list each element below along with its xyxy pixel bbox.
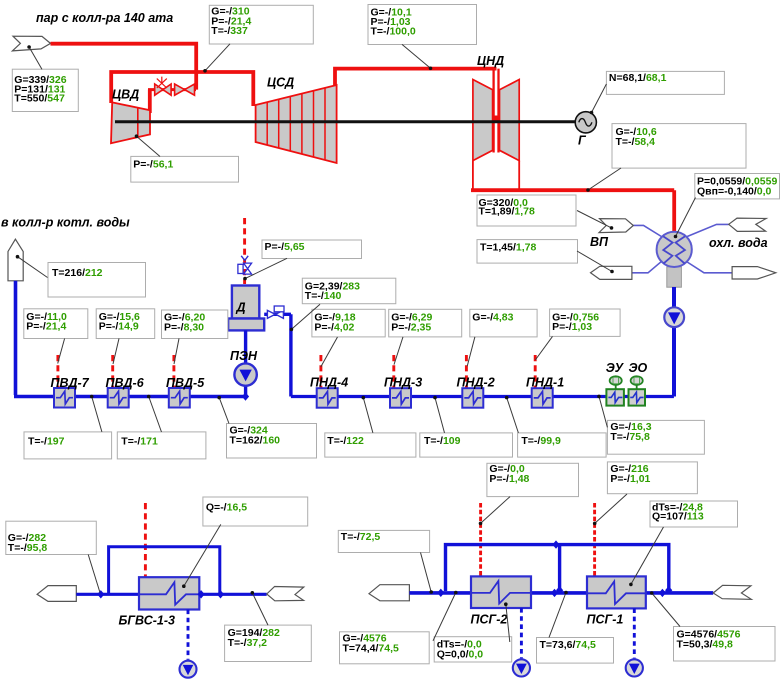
node: reference dot xyxy=(135,134,139,138)
leader line from (179,338.5) xyxy=(174,339,179,365)
pump PEN xyxy=(234,363,256,385)
svg-text:T=-/171: T=-/171 xyxy=(121,435,158,447)
flag: heated network water outlet xyxy=(713,585,751,599)
svg-text:G=-/4,83: G=-/4,83 xyxy=(472,312,513,324)
box: generator power xyxy=(606,71,724,94)
svg-text:Qвп=-0,140/0,0: Qвп=-0,140/0,0 xyxy=(697,186,772,198)
box: condenser pressure xyxy=(695,174,780,199)
leader line from (91.7,396.5) xyxy=(92,397,102,432)
heater БГВС-1-3 xyxy=(139,577,199,609)
svg-text:P=-/5,65: P=-/5,65 xyxy=(265,241,305,253)
leader line from (606.4,84) xyxy=(592,84,607,113)
leader line from (363.3,397.6) xyxy=(363,398,373,433)
box: PSG-2 water inlet xyxy=(340,632,430,664)
node: reference dot xyxy=(454,591,458,595)
node: reference dot xyxy=(433,396,437,400)
deaerator D xyxy=(228,286,264,331)
leader line from (42,69.4) xyxy=(29,47,42,69)
valve: deaerator steam admission valve xyxy=(238,256,252,274)
flag: cooling water outlet right xyxy=(732,267,776,279)
wire: exhaust steam line to condenser xyxy=(471,190,674,232)
svg-text:Q=107/113: Q=107/113 xyxy=(652,511,704,523)
leader line from (474.9,336.9) xyxy=(467,337,475,366)
node: reference dot xyxy=(564,591,568,595)
heater ПНД-2 xyxy=(462,388,483,408)
node: reference dot xyxy=(290,328,294,332)
flag: steam from collector 140 ata inlet xyxy=(12,36,50,51)
heater ПВД-5 xyxy=(169,388,190,408)
svg-text:N=68,1/68,1: N=68,1/68,1 xyxy=(609,72,667,84)
box: PVD-6 temp xyxy=(117,432,206,459)
box: PSG interstage temp xyxy=(537,638,614,664)
svg-text:ПНД-3: ПНД-3 xyxy=(384,375,422,389)
svg-text:ЭО: ЭО xyxy=(629,361,648,375)
shaft xyxy=(115,120,575,123)
turbine IP cylinder CSD xyxy=(256,85,337,163)
svg-text:T=-/72,5: T=-/72,5 xyxy=(341,531,381,543)
node: reference dot xyxy=(429,590,433,594)
box: VP params xyxy=(477,195,576,226)
wire: extraction steam dashed to PVD-5 xyxy=(172,355,175,389)
svg-text:P=-/1,48: P=-/1,48 xyxy=(489,473,529,485)
wire: feedwater line through PVD heaters xyxy=(14,281,246,397)
svg-text:T=-/197: T=-/197 xyxy=(28,435,65,447)
svg-text:T=-/99,9: T=-/99,9 xyxy=(521,435,561,447)
box: PSG-1 water outlet xyxy=(674,627,776,662)
flag: VP air inlet xyxy=(599,219,633,233)
box: fresh steam params xyxy=(12,69,78,111)
box: PSG-2 duty xyxy=(434,637,512,662)
svg-text:P=-/8,30: P=-/8,30 xyxy=(164,321,204,333)
box: PND-4 extraction xyxy=(312,309,385,337)
svg-text:P=-/21,4: P=-/21,4 xyxy=(26,321,66,333)
wire: IP exhaust to LP cylinder xyxy=(335,69,497,86)
wire: extraction steam dashed to PSG-1 xyxy=(593,503,596,577)
svg-text:P=-/4,02: P=-/4,02 xyxy=(314,321,354,333)
svg-text:пар с колл-ра 140 ата: пар с колл-ра 140 ата xyxy=(36,11,173,25)
node: reference dot xyxy=(590,111,594,115)
wire: deaerator outlet through PEN xyxy=(244,330,247,396)
svg-text:охл. вода: охл. вода xyxy=(709,236,768,250)
node: reference dot xyxy=(593,522,597,526)
leader line from (506.7,397.6) xyxy=(507,398,519,433)
wire: condensate line PND-1..PND-4 to deaerator riser xyxy=(291,395,674,398)
heater ПВД-7 xyxy=(54,388,75,408)
flag: return network water inlet xyxy=(369,585,409,601)
leader line from (136.5,136.2) xyxy=(137,136,161,156)
node: reference dot xyxy=(243,277,247,281)
node: reference dot xyxy=(90,395,94,399)
leader line from (599,396.4) xyxy=(599,396,607,427)
leader line from (420.5,552.5) xyxy=(421,553,432,593)
svg-text:Г: Г xyxy=(578,134,587,148)
heater ПВД-6 xyxy=(108,388,129,408)
box: drain temp xyxy=(477,240,578,264)
node: reference dot xyxy=(429,67,433,71)
svg-text:ВП: ВП xyxy=(590,235,609,249)
box: PND-3 temp xyxy=(420,433,513,457)
leader line from (230,43.8) xyxy=(205,44,230,71)
box: deaerator pressure xyxy=(262,240,362,259)
leader line from (320,304.2) xyxy=(291,304,320,329)
leader line from (663.5,527) xyxy=(631,527,664,584)
node: reference dot xyxy=(586,188,590,192)
wire: BGVS bypass xyxy=(109,547,220,593)
node: reference dot xyxy=(16,255,20,259)
wire: LP centre steam admission xyxy=(494,69,499,153)
box: PVD-5 extraction xyxy=(162,310,228,339)
wire: condensate from condenser down to main line xyxy=(672,287,676,397)
wire: extraction steam dashed to deaerator xyxy=(243,218,246,284)
heater ПСГ-2 xyxy=(471,576,531,608)
box: PVD-7 extraction xyxy=(24,309,88,339)
svg-text:T=550/547: T=550/547 xyxy=(14,93,65,105)
leader line from (47.5,277.5) xyxy=(18,257,48,278)
leader line from (627,494) xyxy=(595,494,627,523)
svg-text:P=-/1,01: P=-/1,01 xyxy=(610,473,650,485)
svg-text:ПВД-6: ПВД-6 xyxy=(106,376,145,390)
box: PND-2 extraction xyxy=(470,309,537,337)
node: reference dot xyxy=(650,591,654,595)
svg-text:P=-/14,9: P=-/14,9 xyxy=(99,321,139,333)
svg-text:ПНД-1: ПНД-1 xyxy=(526,375,564,389)
svg-text:T=-/95,8: T=-/95,8 xyxy=(8,542,48,554)
node: reference dot xyxy=(251,591,255,595)
svg-text:ПСГ-2: ПСГ-2 xyxy=(471,612,508,626)
wire: extraction steam dashed to PVD-6 xyxy=(111,355,114,389)
leader line from (455.8,592.5) xyxy=(433,593,456,641)
svg-text:T=216/212: T=216/212 xyxy=(52,267,103,279)
heater ПНД-1 xyxy=(532,388,553,408)
leader line from (435,397.6) xyxy=(435,398,445,433)
node: reference dot xyxy=(217,396,221,400)
svg-text:Q=-/16,5: Q=-/16,5 xyxy=(206,501,247,513)
valve: stop valve with closed marker xyxy=(155,77,171,96)
box: PND-2 temp xyxy=(518,433,607,457)
wire: PSG network water line xyxy=(409,591,713,595)
node: reference dot xyxy=(479,522,483,526)
leader line from (252.3,592.8) xyxy=(252,593,268,625)
box: HP exhaust pressure xyxy=(131,156,239,182)
leader line from (219.2,397.6) xyxy=(219,398,229,424)
wire: PSG bypass xyxy=(446,545,669,591)
wire: BGVS network water line xyxy=(76,593,266,596)
box: PND-3 extraction xyxy=(389,309,462,337)
wire: extraction steam dashed to PVD-7 xyxy=(56,355,59,389)
box: deaerator inlet xyxy=(302,278,396,304)
box: PND-1 extraction xyxy=(550,309,621,336)
box: exhaust params xyxy=(612,124,746,169)
heater ПСГ-1 xyxy=(587,576,646,608)
box: feedwater temp xyxy=(48,263,146,298)
pump: BGVS drain pump xyxy=(180,661,197,678)
turbine HP cylinder CVD xyxy=(111,102,150,143)
pump: PSG-2 drain pump xyxy=(513,659,530,676)
leader line from (148.7,396.5) xyxy=(149,397,162,433)
heater ПНД-3 xyxy=(390,388,411,408)
flag: drain outlet left xyxy=(591,266,632,279)
wire: extraction steam dashed to PND-1 xyxy=(534,355,537,389)
condenser K xyxy=(657,232,692,287)
leader line from (566,592.5) xyxy=(549,593,566,638)
valve: control valve xyxy=(175,84,195,95)
svg-text:Д: Д xyxy=(236,301,246,315)
node: reference dot xyxy=(597,395,601,399)
leader line from (695.5,197.5) xyxy=(676,198,696,237)
box: return water temp xyxy=(338,530,429,552)
node: reference dot xyxy=(505,396,509,400)
wire: PSG mid bypass drop xyxy=(558,545,561,591)
box: PSG-2 extraction xyxy=(487,463,579,496)
leader line from (510,496.6) xyxy=(481,497,511,524)
turbine LP cylinder CND (double flow) xyxy=(473,80,519,161)
node: reference dot xyxy=(182,584,186,588)
wire: cooling water inlet/outlet connections xyxy=(633,225,661,236)
svg-text:T=1,45/1,78: T=1,45/1,78 xyxy=(480,241,537,253)
svg-text:T=-/75,8: T=-/75,8 xyxy=(610,431,650,443)
svg-text:БГВС-1-3: БГВС-1-3 xyxy=(119,614,176,628)
svg-text:ПНД-4: ПНД-4 xyxy=(310,375,348,389)
node: reference dot xyxy=(674,235,678,239)
leader line from (505.8,604.2) xyxy=(506,604,510,642)
node: reference dot xyxy=(504,602,508,606)
wire: extraction steam dashed to PND-2 xyxy=(465,355,468,389)
wire: extraction steam dashed to PSG-2 xyxy=(479,503,482,577)
flag: network water inlet to BGVS xyxy=(37,586,76,602)
pump: PSG-1 drain pump xyxy=(626,659,643,676)
node: reference dot xyxy=(610,270,614,274)
wire: extraction steam dashed to BGVS xyxy=(144,503,147,578)
valve: deaerator inlet valve xyxy=(267,306,284,318)
wire: HP exhaust crossover to IP xyxy=(111,72,253,106)
svg-text:P=-/2,35: P=-/2,35 xyxy=(391,321,431,333)
svg-text:ЦНД: ЦНД xyxy=(477,54,504,68)
leader line from (64.6,338.5) xyxy=(58,339,65,364)
heater ПНД-4 xyxy=(317,388,338,408)
box: PSG-1 duty xyxy=(650,501,738,527)
svg-text:T=-/100,0: T=-/100,0 xyxy=(371,26,416,38)
leader line from (119,338.5) xyxy=(113,339,119,365)
svg-text:ПСГ-1: ПСГ-1 xyxy=(587,612,624,626)
wire: PSG-2 drain dashed to pump xyxy=(520,608,523,658)
generator G xyxy=(575,112,596,133)
svg-text:ПНД-2: ПНД-2 xyxy=(457,375,495,389)
svg-text:T=-/58,4: T=-/58,4 xyxy=(616,136,656,148)
svg-text:ЦСД: ЦСД xyxy=(267,76,294,90)
svg-text:T=-/37,2: T=-/37,2 xyxy=(228,637,268,649)
box: IP inlet params xyxy=(209,5,313,44)
flag: to boiler water collector (up) xyxy=(8,239,23,281)
node: reference dot xyxy=(610,226,614,230)
box: BGVS outlet params xyxy=(225,625,312,661)
node: reference dot xyxy=(147,395,151,399)
box: LP inlet params xyxy=(368,5,477,45)
wire: fresh steam line to stop valves xyxy=(51,44,197,90)
node: junction markers xyxy=(97,590,104,598)
box: PSG-1 extraction xyxy=(607,462,697,494)
leader line from (621,168) xyxy=(588,168,621,190)
node: reference dot xyxy=(203,69,207,73)
leader line from (88.2,554.5) xyxy=(88,555,100,593)
wire: extraction steam dashed to PND-4 xyxy=(319,355,322,389)
svg-text:P=-/56,1: P=-/56,1 xyxy=(133,158,173,170)
svg-text:T=-/109: T=-/109 xyxy=(424,435,461,447)
svg-text:Q=0,0/0,0: Q=0,0/0,0 xyxy=(437,649,484,661)
wire: BGVS drain dashed to pump xyxy=(187,610,190,660)
box: PVD-6 extraction xyxy=(96,309,155,339)
box: PND-4 temp xyxy=(325,433,416,457)
svg-text:P=-/1,03: P=-/1,03 xyxy=(552,321,592,333)
svg-text:ПВД-5: ПВД-5 xyxy=(166,376,205,390)
ejector cooler ЭО xyxy=(629,376,646,405)
flag: cooling water inlet okhl voda xyxy=(729,218,767,231)
node: reference dot xyxy=(362,396,366,400)
ejector cooler ЭУ xyxy=(606,376,624,405)
box: feed line params xyxy=(227,424,317,459)
flag: network water outlet from BGVS xyxy=(267,587,304,601)
svg-text:ПЭН: ПЭН xyxy=(230,349,258,363)
svg-text:T=-/122: T=-/122 xyxy=(327,435,364,447)
svg-text:T=73,6/74,5: T=73,6/74,5 xyxy=(540,639,597,651)
svg-text:в колл-р котл. воды: в колл-р котл. воды xyxy=(1,216,130,230)
node: reference dot xyxy=(629,583,633,587)
wire: valve line into HP cylinder xyxy=(148,88,196,91)
box: condensate params xyxy=(607,420,704,454)
node: reference dot xyxy=(27,45,31,49)
leader line from (577,210.5) xyxy=(577,211,612,228)
svg-text:ПВД-7: ПВД-7 xyxy=(51,376,90,390)
leader line from (651.7,593) xyxy=(652,593,680,627)
svg-text:T=-/337: T=-/337 xyxy=(211,25,248,37)
svg-text:ЦВД: ЦВД xyxy=(112,88,139,102)
svg-text:ЭУ: ЭУ xyxy=(606,361,625,375)
leader line from (220.8,524.4) xyxy=(184,524,221,586)
box: BGVS duty xyxy=(203,497,308,526)
LP exhaust hood xyxy=(473,161,519,189)
svg-text:T=50,3/49,8: T=50,3/49,8 xyxy=(677,639,734,651)
wire: extraction steam dashed to PND-3 xyxy=(392,355,395,389)
svg-text:T=74,4/74,5: T=74,4/74,5 xyxy=(343,643,400,655)
box: PVD-7 temp xyxy=(24,432,112,459)
svg-text:T=162/160: T=162/160 xyxy=(230,434,281,446)
pump: condensate pump xyxy=(664,307,684,327)
svg-text:T=1,89/1,78: T=1,89/1,78 xyxy=(479,205,536,217)
svg-text:T=-/140: T=-/140 xyxy=(305,290,342,302)
leader line from (552.5,336.4) xyxy=(535,336,552,360)
leader line from (402,44.4) xyxy=(402,44,431,68)
leader line from (287,258.3) xyxy=(245,258,287,278)
leader line from (403,336.9) xyxy=(394,337,403,365)
leader line from (337.5,337) xyxy=(321,337,338,367)
leader line from (577,251) xyxy=(577,251,612,272)
wire: PSG-1 drain dashed to pump xyxy=(633,608,636,658)
box: BGVS inlet params xyxy=(6,521,97,554)
